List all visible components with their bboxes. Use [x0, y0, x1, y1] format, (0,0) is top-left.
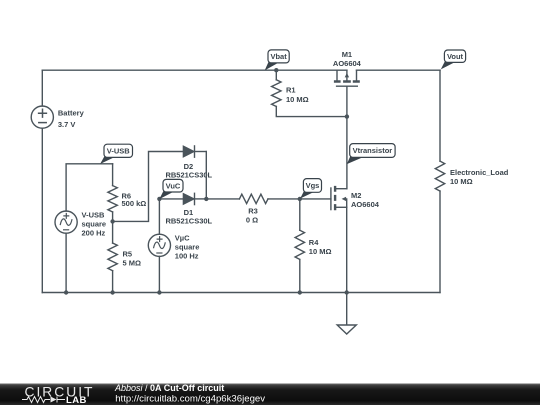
svg-text:AO6604: AO6604	[333, 59, 362, 68]
svg-text:3.7 V: 3.7 V	[58, 120, 76, 129]
node flag Vtransistor	[347, 144, 395, 165]
svg-text:M2: M2	[351, 191, 361, 200]
svg-text:10 MΩ: 10 MΩ	[286, 95, 309, 104]
wire top rail from battery to M1 source	[42, 69, 347, 71]
voltage source VµC square 100 Hz	[148, 234, 170, 256]
diode D2 RB521CS30L	[183, 146, 206, 157]
CircuitLab logo resistor-diode glyph	[22, 397, 65, 403]
resistor Electronic_Load label 10 MΩ	[450, 168, 509, 186]
svg-text:http://circuitlab.com/cg4p6k36: http://circuitlab.com/cg4p6k36jegev	[115, 394, 265, 405]
wire right rail load to bottom	[439, 191, 441, 292]
transistor M2 name label	[351, 191, 380, 209]
wire R3 to Vgs node	[268, 198, 300, 200]
wire D-node to R3	[206, 198, 239, 200]
wire R6-R5 junction to D2 anode	[113, 152, 184, 222]
svg-text:RB521CS30L: RB521CS30L	[165, 217, 212, 226]
svg-text:D1: D1	[184, 208, 194, 217]
CircuitLab logo wordmark	[25, 385, 95, 405]
svg-text:VuC: VuC	[166, 181, 181, 190]
transistor M1 PMOS AO6604	[334, 70, 360, 86]
svg-text:R3: R3	[248, 206, 258, 215]
svg-text:square: square	[175, 243, 200, 252]
svg-text:V-USB: V-USB	[107, 147, 131, 156]
wire left rail battery bottom	[41, 128, 43, 292]
wire VµC source bottom	[158, 256, 160, 292]
diode D1 label	[165, 208, 212, 226]
resistor R6 leads	[112, 164, 114, 222]
svg-text:V-USB: V-USB	[82, 210, 106, 219]
svg-text:5 MΩ: 5 MΩ	[123, 258, 142, 267]
resistor R5 leads	[112, 221, 114, 292]
voltage source V-USB square 200 Hz	[55, 211, 77, 233]
svg-text:VµC: VµC	[175, 234, 190, 243]
resistor R6 body	[108, 186, 117, 212]
resistor R3 label 0 Ω	[246, 206, 258, 224]
resistor R1 body	[272, 80, 281, 107]
wire VuC node down to VµC source	[158, 199, 160, 234]
resistor R1 leads	[276, 70, 347, 116]
svg-text:square: square	[82, 219, 107, 228]
resistor Electronic_Load body	[435, 161, 444, 191]
battery V1 name value label	[58, 108, 85, 128]
ground symbol	[337, 293, 356, 335]
resistor R1 label 10 MΩ	[286, 85, 309, 104]
voltage source V-USB label	[82, 210, 107, 237]
svg-text:D2: D2	[184, 162, 194, 171]
footer title text	[114, 383, 265, 405]
svg-text:Vbat: Vbat	[270, 52, 287, 61]
node flag VuC	[159, 179, 183, 199]
svg-text:AO6604: AO6604	[351, 200, 380, 209]
battery V1 3.7V	[31, 106, 53, 128]
wire M2 source to ground rail	[346, 207, 348, 292]
diode D2 label	[165, 162, 212, 180]
wire bottom ground rail	[42, 292, 440, 294]
resistor R4 body	[295, 230, 304, 259]
svg-text:R1: R1	[286, 85, 296, 94]
svg-text:LAB: LAB	[66, 395, 87, 405]
node flag Vbat	[265, 50, 290, 71]
svg-text:Electronic_Load: Electronic_Load	[450, 168, 509, 177]
wire V-USB source bottom	[65, 233, 67, 292]
svg-text:Vout: Vout	[447, 52, 464, 61]
resistor R4 label 10 MΩ	[309, 238, 332, 256]
svg-text:200 Hz: 200 Hz	[82, 228, 106, 237]
svg-text:Vtransistor: Vtransistor	[353, 146, 393, 155]
node flag Vout	[441, 50, 466, 69]
resistor R3 body	[239, 194, 268, 203]
svg-text:M1: M1	[342, 50, 352, 59]
wire M1 gate to M2 drain (Vtransistor net)	[346, 86, 348, 189]
transistor M1 name label	[333, 50, 362, 68]
svg-text:RB521CS30L: RB521CS30L	[165, 171, 212, 180]
svg-text:Abbosi / 0A Cut-Off circuit: Abbosi / 0A Cut-Off circuit	[114, 383, 224, 393]
footer bar	[0, 384, 540, 405]
svg-text:100 Hz: 100 Hz	[175, 252, 199, 261]
svg-text:Vgs: Vgs	[306, 181, 320, 190]
svg-text:R4: R4	[309, 238, 319, 247]
wire D2 cathode down to D1 output node	[205, 152, 207, 199]
node flag V-USB	[100, 144, 132, 164]
resistor R5 body	[108, 243, 117, 271]
node flag Vgs	[300, 179, 321, 199]
wire V-USB source top to R6 top	[66, 164, 113, 211]
wire left rail battery top	[41, 70, 43, 106]
wire right rail Vout to load	[439, 70, 441, 161]
voltage source VµC label	[175, 234, 200, 261]
svg-text:500 kΩ: 500 kΩ	[122, 199, 147, 208]
wire top rail from M1 drain to Vout corner	[357, 69, 441, 71]
diode D1 RB521CS30L	[183, 193, 206, 204]
svg-text:0 Ω: 0 Ω	[246, 215, 258, 224]
svg-text:Battery: Battery	[58, 108, 85, 117]
resistor R4 leads	[299, 199, 301, 293]
transistor M2 NMOS AO6604	[300, 186, 347, 210]
svg-text:10 MΩ: 10 MΩ	[309, 247, 332, 256]
svg-text:10 MΩ: 10 MΩ	[450, 177, 473, 186]
resistor R6 label 500 kΩ	[122, 192, 147, 209]
wire VuC node to D1 anode	[159, 198, 183, 200]
svg-text:R5: R5	[123, 249, 133, 258]
resistor R5 label 5 MΩ	[123, 249, 142, 267]
